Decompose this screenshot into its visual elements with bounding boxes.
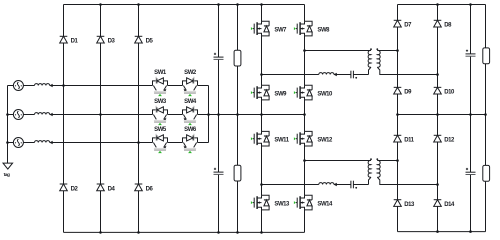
junction at (100.5,4.5) <box>99 3 102 6</box>
junction at (100.5,114.5) <box>99 113 102 116</box>
svg-text:SW1: SW1 <box>154 70 167 76</box>
wire mid rail right block <box>398 114 486 116</box>
junction at (470.5,4.5) <box>469 3 472 6</box>
mosfet SW11 <box>251 131 290 146</box>
svg-text:D2: D2 <box>71 186 79 192</box>
wire phase A row <box>23 85 208 87</box>
wire bridge right leg <box>304 5 306 233</box>
diode D12 <box>434 135 455 143</box>
dc-link resistor R1 <box>234 50 241 66</box>
junction at (261.5,4.5) <box>260 3 263 6</box>
wire dc-link resistor column <box>237 5 239 233</box>
junction at (261.5,74.5) <box>260 73 263 76</box>
wire rectifier leg D8 D10 D12 D14 <box>437 5 439 232</box>
wire D5 D6 column <box>138 5 140 233</box>
svg-text:SW11: SW11 <box>274 138 289 144</box>
wire output capacitor column <box>470 5 472 232</box>
wire bridge2 left tap through L2 C2s <box>262 184 369 186</box>
wire top rail right block <box>398 4 486 6</box>
wire mid rail dc-link midpoint <box>209 114 305 116</box>
svg-text:D8: D8 <box>444 23 452 29</box>
junction at (304.5,50.5) <box>303 49 306 52</box>
wire source stubs <box>8 86 14 143</box>
diode D2 <box>60 184 79 192</box>
switch SW3 <box>153 99 168 125</box>
mosfet SW8 <box>294 21 330 36</box>
junction at (237.5,114.5) <box>236 113 239 116</box>
junction at (63.5,85.5) <box>62 84 65 87</box>
junction at (397.5,114.5) <box>396 113 399 116</box>
wire bridge1 right tap to T1 primary top <box>305 50 372 52</box>
junction at (138.5,232.4) <box>137 231 140 234</box>
wire bridge1 left tap through L1 C1s <box>262 74 369 76</box>
junction at (437.5,114.5) <box>436 113 439 116</box>
svg-text:SW13: SW13 <box>274 201 290 207</box>
transformer T1 <box>368 48 380 67</box>
svg-text:SW5: SW5 <box>154 127 167 133</box>
wire D1 D2 column <box>63 5 65 233</box>
arrow phase B <box>49 113 52 116</box>
junction at (470.5,231.6) <box>469 230 472 233</box>
diode D8 <box>434 20 452 28</box>
diode D11 <box>394 135 415 143</box>
output capacitor Co1 <box>466 50 476 57</box>
svg-text:SW10: SW10 <box>317 91 333 97</box>
junction at (208.5,114.5) <box>207 113 210 116</box>
svg-text:tag: tag <box>4 172 10 178</box>
svg-text:D4: D4 <box>108 186 116 192</box>
svg-text:SW14: SW14 <box>317 201 333 207</box>
junction at (304.5,160.5) <box>303 159 306 162</box>
wire T2 primary bottom lead <box>369 177 372 184</box>
junction at (261.5,232.4) <box>260 231 263 234</box>
svg-text:SW9: SW9 <box>274 91 287 97</box>
svg-text:SW12: SW12 <box>317 138 333 144</box>
wire T1 primary bottom lead <box>369 67 372 74</box>
svg-text:D12: D12 <box>444 138 455 144</box>
diode D10 <box>434 87 455 95</box>
output capacitor Co2 <box>466 168 476 175</box>
junction at (397.5,50.5) <box>396 49 399 52</box>
inductor L2 <box>319 183 337 187</box>
junction at (437.5,4.5) <box>436 3 439 6</box>
svg-text:D1: D1 <box>71 39 79 45</box>
junction at (237.5,4.5) <box>236 3 239 6</box>
svg-text:D9: D9 <box>404 90 412 96</box>
diode D13 <box>394 200 415 208</box>
ac source Va <box>13 81 23 91</box>
mosfet SW12 <box>294 131 333 146</box>
wire output resistor column <box>485 5 487 232</box>
diode D5 <box>135 36 154 44</box>
svg-text:SW3: SW3 <box>154 99 167 105</box>
svg-text:SW7: SW7 <box>274 27 287 33</box>
svg-text:D11: D11 <box>404 138 414 144</box>
dc-link capacitor C2 <box>214 168 224 175</box>
output resistor Ro2 <box>483 165 490 181</box>
arrow phase A <box>49 84 52 87</box>
svg-text:D10: D10 <box>444 90 455 96</box>
ground <box>3 163 13 178</box>
dc-link resistor R2 <box>234 165 241 181</box>
diode D1 <box>60 36 79 44</box>
wire T1 secondary bottom lead <box>377 67 437 74</box>
wire D3 D4 column <box>100 5 102 233</box>
junction at (304.5,114.5) <box>303 113 306 116</box>
wire rectifier leg D7 D9 D11 D13 <box>397 5 399 232</box>
mosfet SW14 <box>294 195 333 210</box>
switch SW1 <box>153 70 168 96</box>
diode D9 <box>394 87 412 95</box>
wire phase B row <box>23 114 208 116</box>
svg-text:D3: D3 <box>108 39 116 45</box>
diode D3 <box>97 36 116 44</box>
capacitor Cs1 <box>351 71 357 79</box>
junction at (218.5,114.5) <box>217 113 220 116</box>
diode D4 <box>97 184 116 192</box>
ac source Vc <box>13 138 23 148</box>
wire bottom rail right block <box>398 231 486 233</box>
svg-text:D6: D6 <box>146 186 154 192</box>
output resistor Ro1 <box>483 48 490 64</box>
wire T2 secondary top lead <box>377 160 397 162</box>
switch SW4 <box>183 99 198 125</box>
wire bridge left leg <box>261 5 263 233</box>
diode D14 <box>434 200 455 208</box>
dc-link capacitor C1 <box>214 53 224 60</box>
wire switch-matrix right column <box>208 86 210 143</box>
junction at (470.5,114.5) <box>469 113 472 116</box>
wire T2 secondary bottom lead <box>377 177 437 184</box>
svg-text:SW4: SW4 <box>184 99 197 105</box>
svg-text:D13: D13 <box>404 202 415 208</box>
svg-text:D5: D5 <box>146 39 154 45</box>
transformer T2 <box>368 158 380 177</box>
svg-text:SW6: SW6 <box>184 127 197 133</box>
junction at (138.5,142.5) <box>137 141 140 144</box>
mosfet SW7 <box>251 21 287 36</box>
junction at (397.5,160.5) <box>396 159 399 162</box>
inductor Lc <box>35 141 50 143</box>
inductor L1 <box>319 73 337 77</box>
switch SW2 <box>183 70 198 96</box>
junction at (261.5,114.5) <box>260 113 263 116</box>
wire source common bus <box>7 86 9 164</box>
wire T1 secondary top lead <box>377 50 397 52</box>
svg-text:SW2: SW2 <box>184 70 197 76</box>
inductor Lb <box>35 113 50 115</box>
junction at (437.5,184.5) <box>436 183 439 186</box>
junction at (138.5,4.5) <box>137 3 140 6</box>
capacitor Cs2 <box>351 181 357 189</box>
svg-text:D14: D14 <box>444 202 455 208</box>
mosfet SW13 <box>251 195 290 210</box>
wire bridge2 right tap to T2 primary top <box>305 160 372 162</box>
switch SW6 <box>183 127 198 153</box>
wire bottom rail left block <box>64 231 305 233</box>
svg-text:SW8: SW8 <box>317 27 330 33</box>
mosfet SW10 <box>294 85 333 100</box>
junction at (218.5,4.5) <box>217 3 220 6</box>
ac source Vb <box>13 110 23 120</box>
junction at (485.5,114.5) <box>484 113 487 116</box>
mosfet SW9 <box>251 85 287 100</box>
wire phase C row <box>23 142 208 144</box>
wire top rail left block <box>64 4 305 6</box>
junction at (437.5,74.5) <box>436 73 439 76</box>
junction at (237.5,232.4) <box>236 231 239 234</box>
junction at (218.5,232.4) <box>217 231 220 234</box>
junction at (7.5,114.5) <box>6 113 9 116</box>
svg-text:D7: D7 <box>404 23 412 29</box>
diode D6 <box>135 184 154 192</box>
arrow phase C <box>49 141 52 144</box>
inductor La <box>35 84 50 86</box>
junction at (261.5,184.5) <box>260 183 263 186</box>
switch SW5 <box>153 127 168 153</box>
diode D7 <box>394 20 412 28</box>
wire dc-link capacitor column <box>218 5 220 233</box>
junction at (437.5,231.6) <box>436 230 439 233</box>
junction at (7.5,142.5) <box>6 141 9 144</box>
junction at (100.5,232.4) <box>99 231 102 234</box>
